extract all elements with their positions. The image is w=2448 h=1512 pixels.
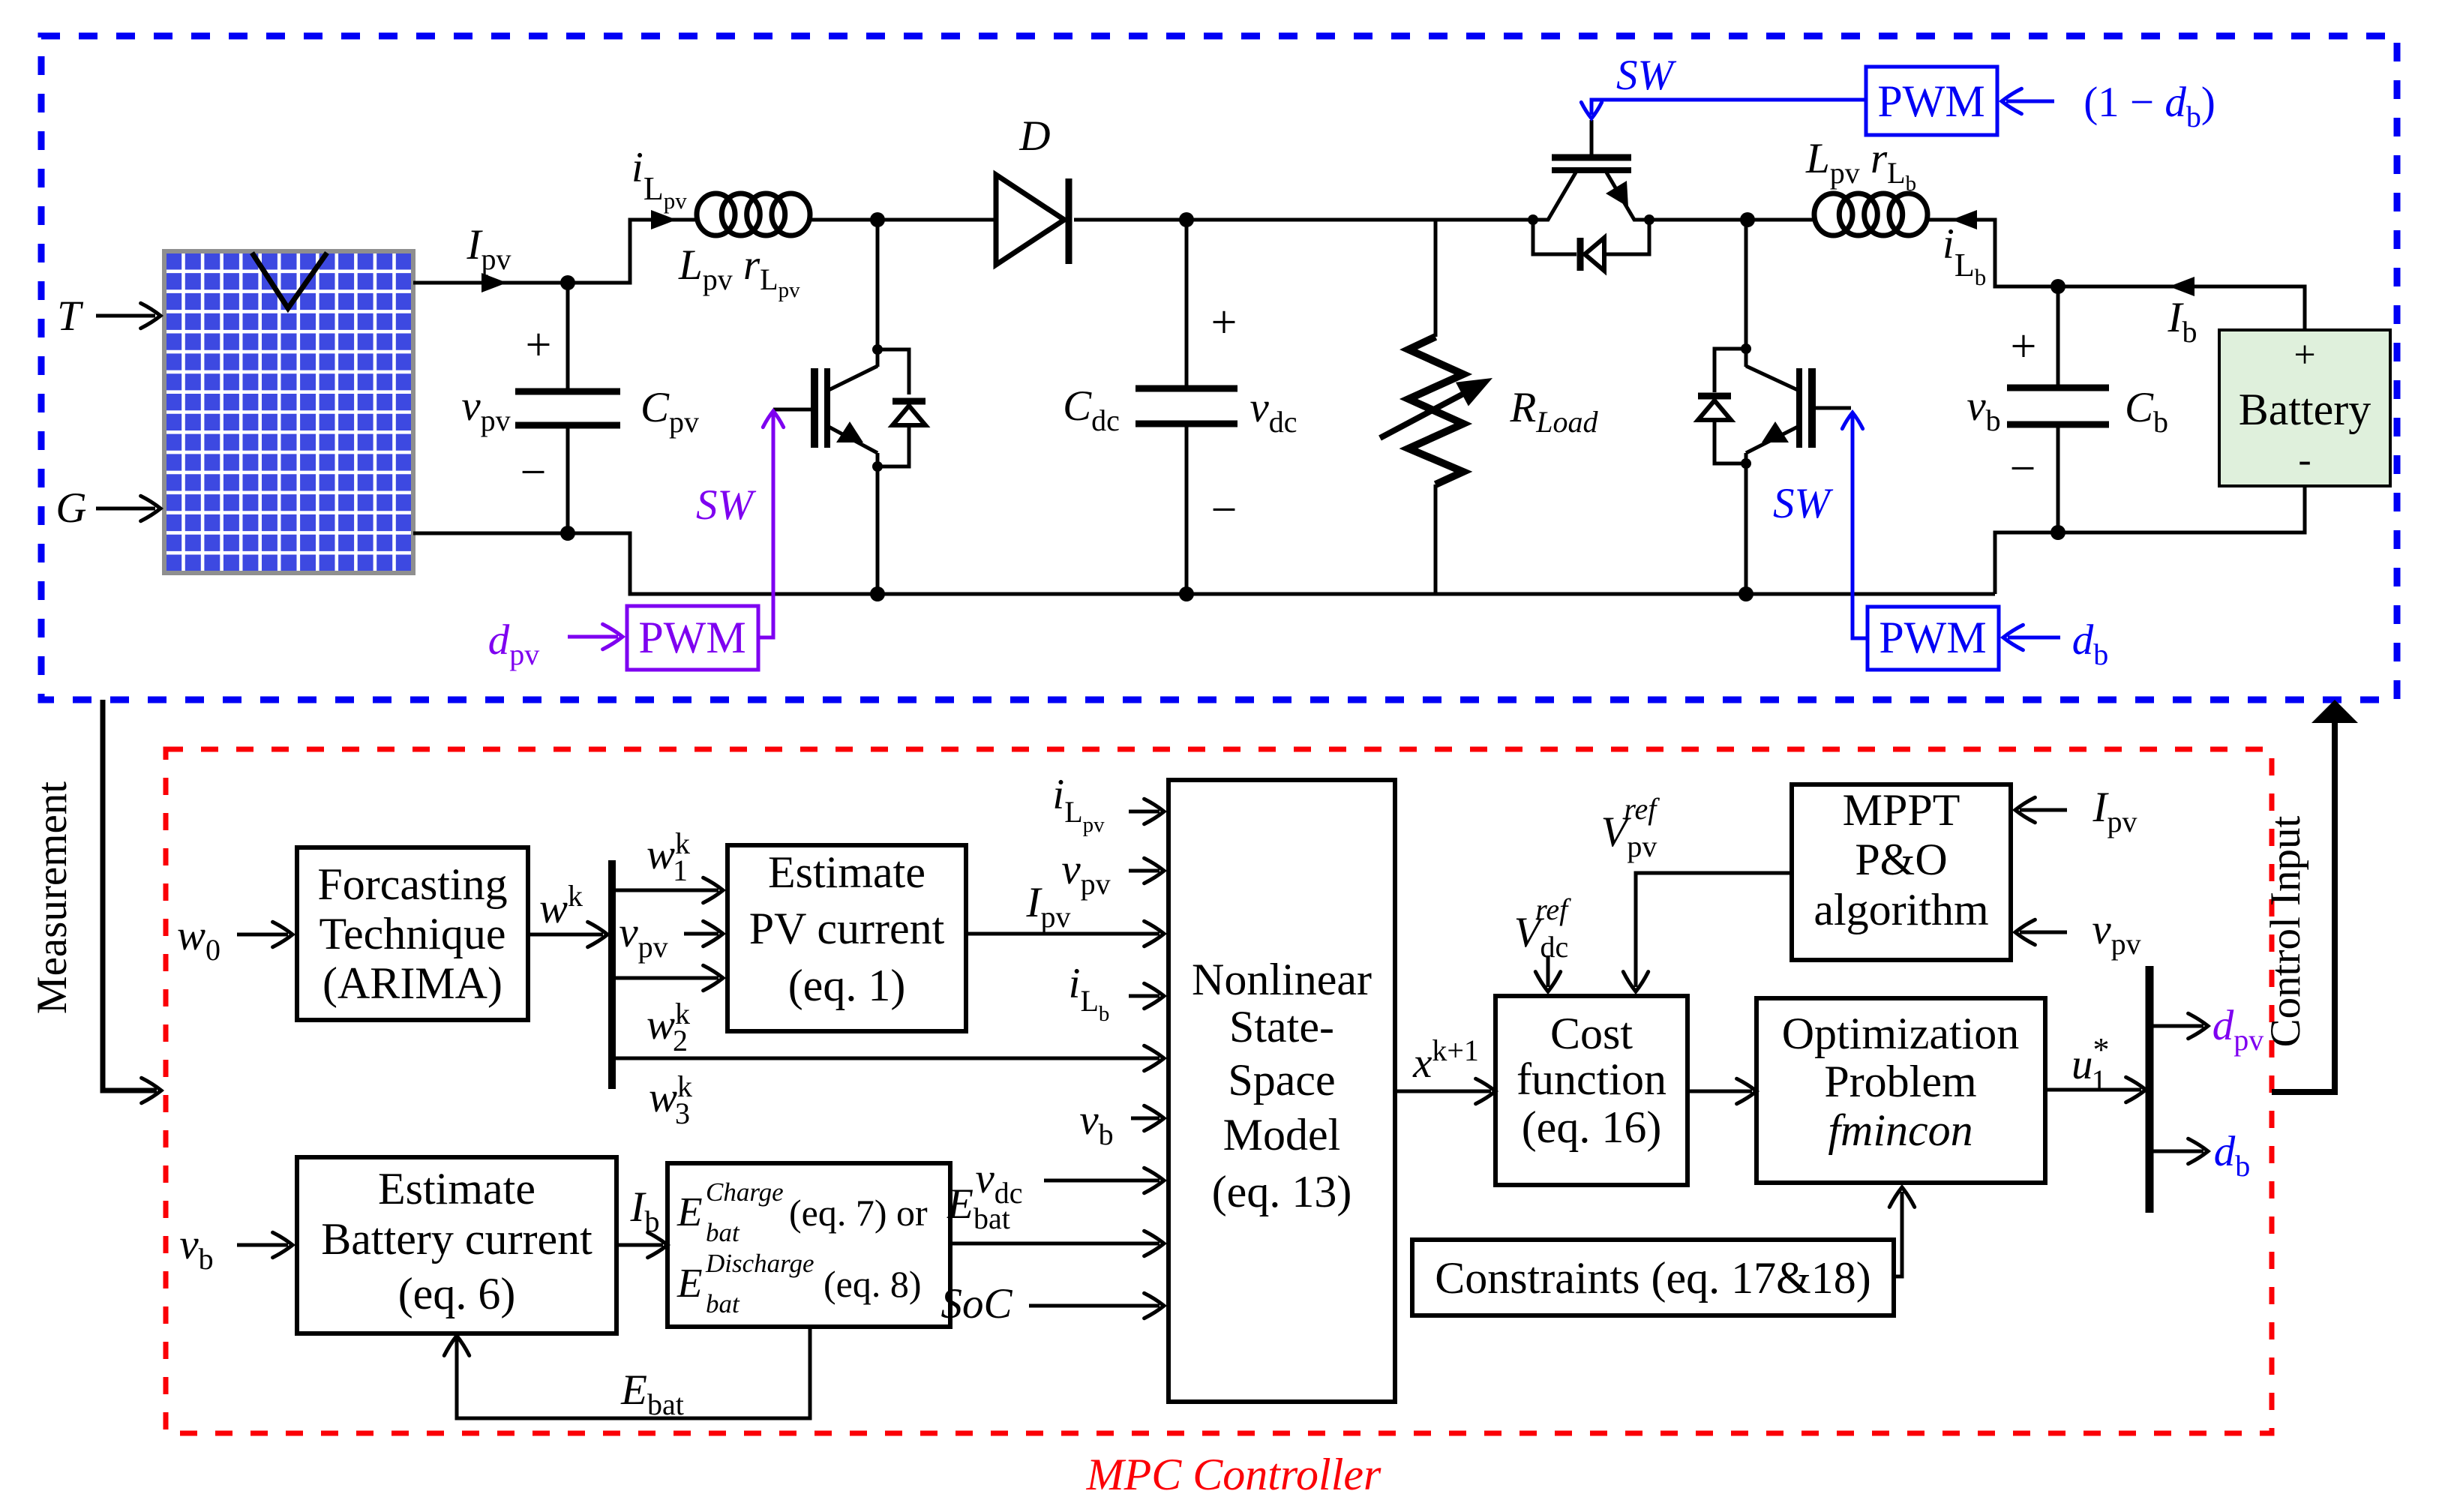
wire bottom step <box>568 533 877 594</box>
block Estimate PV current (eq. 1) <box>727 845 966 1031</box>
svg-text:PWM: PWM <box>1877 76 1984 126</box>
svg-text:Estimate: Estimate <box>378 1164 535 1213</box>
svg-text:(eq. 7) or: (eq. 7) or <box>789 1192 928 1234</box>
node B (dc bus +) <box>1179 212 1194 227</box>
power circuit boundary (blue dashed box) <box>41 36 2397 700</box>
wire vb to model <box>1131 1105 1164 1130</box>
wire w2k branch <box>615 965 723 990</box>
wire Ipv to model <box>966 921 1164 946</box>
svg-text:P&O: P&O <box>1855 835 1947 884</box>
svg-text:(eq. 13): (eq. 13) <box>1212 1167 1352 1216</box>
svg-text:SW: SW <box>1773 480 1834 527</box>
wire PV positive output <box>413 281 568 285</box>
wire battery negative <box>2058 486 2305 532</box>
block Forecasting Technique (ARIMA) <box>297 847 528 1020</box>
node bottom 2 <box>1179 586 1194 601</box>
wire Q2 to node C <box>1649 218 1747 222</box>
svg-text:vb: vb <box>179 1221 213 1276</box>
svg-text:D: D <box>1018 112 1050 160</box>
block Ebat charge/discharge (eq. 7 / eq. 8) <box>667 1163 950 1327</box>
svg-text:+: + <box>526 319 552 370</box>
svg-text:Vpvref: Vpvref <box>1601 792 1660 863</box>
wire PWM1 to Q1 gate (purple) <box>758 411 784 637</box>
svg-text:Cb: Cb <box>2125 384 2168 439</box>
svg-text:MPC Controller: MPC Controller <box>1086 1450 1381 1499</box>
wire optimization to output bus <box>2045 1077 2146 1102</box>
wire T input <box>96 303 160 328</box>
block Nonlinear State-Space Model (eq. 13) <box>1168 780 1395 1402</box>
svg-text:w0: w0 <box>177 912 220 967</box>
svg-text:iLb: iLb <box>1069 960 1110 1026</box>
wire Q1 emitter to rail <box>876 466 880 594</box>
svg-text:Ebat: Ebat <box>620 1366 684 1421</box>
svg-text:(eq. 6): (eq. 6) <box>398 1269 516 1318</box>
block MPPT P&O algorithm <box>1792 784 2011 960</box>
wire node A to diode D <box>877 218 996 222</box>
svg-text:db: db <box>2072 616 2109 671</box>
svg-text:(1 − db): (1 − db) <box>2083 79 2215 133</box>
wire w1k branch <box>615 877 723 902</box>
svg-text:dpv: dpv <box>2212 1002 2264 1057</box>
resistor RLoad <box>1380 337 1498 484</box>
wire w3k branch <box>615 1045 1164 1070</box>
wire db to PWM3 <box>2003 625 2060 649</box>
arrow iLpv direction <box>651 210 676 229</box>
block Cost function (eq. 16) <box>1495 996 1687 1185</box>
wire Vpv ref to cost <box>1623 873 1792 991</box>
svg-text:iLpv: iLpv <box>1052 771 1105 837</box>
node E (battery bus -) <box>2050 525 2065 540</box>
svg-text:vpv: vpv <box>2092 906 2140 961</box>
svg-text:Ipv: Ipv <box>466 221 511 276</box>
node C (buck-boost switch node) <box>1740 212 1755 227</box>
svg-text:Vdcref: Vdcref <box>1514 892 1571 964</box>
svg-text:PV current: PV current <box>749 904 945 953</box>
wire w0 to forecasting <box>237 922 292 946</box>
svg-text:fmincon: fmincon <box>1828 1105 1972 1155</box>
svg-text:T: T <box>57 292 84 340</box>
wire Lb to elbow <box>1927 220 2058 286</box>
wire Ib to Ebat block <box>616 1232 667 1257</box>
svg-text:Forcasting: Forcasting <box>317 859 507 909</box>
wire Q3 emitter to rail <box>1744 463 1748 594</box>
svg-text:Charge: Charge <box>706 1177 784 1207</box>
wire cost to optimization <box>1687 1078 1756 1103</box>
svg-text:Cdc: Cdc <box>1063 382 1120 437</box>
wire wk to bus <box>528 922 607 946</box>
svg-text:Lpv rLpv: Lpv rLpv <box>678 241 800 302</box>
transistor Q3 (battery bottom IGBT) <box>1741 343 1851 469</box>
svg-text:Problem: Problem <box>1824 1057 1976 1106</box>
svg-text:+: + <box>2293 334 2315 376</box>
svg-text:Cpv: Cpv <box>640 384 699 439</box>
wire model to cost <box>1395 1078 1495 1103</box>
wire Measurement <box>103 700 161 1103</box>
svg-text:wk: wk <box>539 879 583 932</box>
wire to inductor Lpv <box>672 218 697 222</box>
svg-text:+: + <box>2011 321 2037 372</box>
svg-text:Lpv rLb: Lpv rLb <box>1805 135 1916 196</box>
PV array panel <box>164 251 413 573</box>
svg-text:Constraints (eq. 17&18): Constraints (eq. 17&18) <box>1435 1253 1871 1303</box>
wire node C to Q3 <box>1744 220 1748 367</box>
wire node to boost step <box>568 220 672 283</box>
wire dpv to PWM1 <box>568 624 622 649</box>
wire G input <box>96 496 160 520</box>
svg-text:Model: Model <box>1223 1110 1341 1159</box>
wire PWM2 to Q2 gate (blue) <box>1581 100 1866 118</box>
svg-text:State-: State- <box>1229 1002 1334 1051</box>
svg-text:SW: SW <box>696 481 757 529</box>
MPC controller boundary (red dashed box) <box>166 749 2272 1433</box>
svg-text:vpv: vpv <box>1061 846 1110 901</box>
svg-text:MPPT: MPPT <box>1843 785 1960 835</box>
wire Ebat to model <box>950 1231 1164 1255</box>
pwm PWM2 (1-db) box <box>1866 67 1997 135</box>
wire (1-db) to PWM2 <box>2002 88 2054 113</box>
svg-text:(eq. 16): (eq. 16) <box>1522 1102 1662 1152</box>
svg-text:u*1: u*1 <box>2071 1031 2110 1097</box>
wire vpv branch <box>684 921 723 946</box>
svg-text:function: function <box>1516 1054 1666 1104</box>
svg-text:iLb: iLb <box>1942 220 1986 290</box>
wire bottom rail <box>877 592 1995 596</box>
svg-text:Technique: Technique <box>319 909 505 958</box>
wire constraints to optimization <box>1889 1187 1914 1276</box>
block Optimization Problem fmincon <box>1756 998 2045 1183</box>
svg-text:Nonlinear: Nonlinear <box>1192 955 1372 1004</box>
svg-text:(eq. 8): (eq. 8) <box>823 1263 922 1305</box>
transistor Q2 (battery top IGBT) <box>1528 120 1654 225</box>
svg-text:vpv: vpv <box>619 909 667 964</box>
arrow Ipv direction <box>481 273 507 292</box>
svg-text:bat: bat <box>706 1289 740 1318</box>
wire Cdc top <box>1185 220 1189 388</box>
svg-text:wk3: wk3 <box>649 1069 692 1130</box>
wire Control Input <box>2272 700 2358 1092</box>
svg-text:db: db <box>2214 1128 2251 1183</box>
node PV negative <box>560 526 575 541</box>
wire diode to node B <box>1074 218 1186 222</box>
output bus bar <box>2146 966 2154 1213</box>
svg-text:Battery: Battery <box>2239 385 2371 434</box>
svg-text:(eq. 1): (eq. 1) <box>788 961 906 1010</box>
svg-text:SW: SW <box>1616 52 1677 99</box>
svg-text:dpv: dpv <box>488 616 540 671</box>
node PV positive <box>560 275 575 290</box>
svg-text:+: + <box>1211 297 1237 348</box>
wire node C to Lb <box>1747 218 1814 222</box>
wire RLoad top <box>1434 220 1438 337</box>
svg-text:G: G <box>55 484 86 532</box>
svg-text:bat: bat <box>706 1218 740 1247</box>
svg-text:algorithm: algorithm <box>1813 885 1988 934</box>
wire dpv output <box>2153 1013 2208 1038</box>
block Constraints (eq. 17&18) <box>1412 1240 1894 1315</box>
wire Ipv to MPPT <box>2015 797 2067 822</box>
wire PWM3 to Q3 gate (blue) <box>1842 412 1867 638</box>
svg-text:xk+1: xk+1 <box>1412 1033 1479 1087</box>
svg-text:Measurement: Measurement <box>28 781 76 1014</box>
svg-text:Cost: Cost <box>1550 1009 1633 1058</box>
wire dc bus top <box>1186 218 1533 222</box>
diode D <box>996 175 1069 265</box>
svg-text:−: − <box>1211 484 1237 535</box>
wire Cdc bottom <box>1185 424 1189 594</box>
svg-text:Discharge: Discharge <box>705 1249 814 1278</box>
block Estimate Battery current (eq. 6) <box>297 1157 616 1333</box>
svg-text:Estimate: Estimate <box>768 847 925 897</box>
capacitor Cpv <box>515 391 620 425</box>
svg-text:E: E <box>676 1189 703 1234</box>
wire db output <box>2153 1138 2208 1163</box>
wire SoC to model <box>1029 1293 1164 1318</box>
svg-text:(ARIMA): (ARIMA) <box>322 958 502 1008</box>
svg-text:vdc: vdc <box>1249 384 1297 439</box>
capacitor Cdc <box>1135 388 1237 424</box>
node D (battery bus +) <box>2050 279 2065 294</box>
svg-text:−: − <box>2010 443 2036 494</box>
svg-text:Ib: Ib <box>630 1183 660 1238</box>
svg-text:RLoad: RLoad <box>1509 384 1598 439</box>
wire battery rail return <box>1995 532 2058 594</box>
svg-text:E: E <box>676 1260 703 1306</box>
node bottom 1 <box>870 586 885 601</box>
wire vpv to model <box>1129 858 1164 883</box>
inductor Lpv <box>697 193 810 235</box>
svg-text:Optimization: Optimization <box>1782 1009 2020 1058</box>
wire vb to battery-estimator <box>237 1232 292 1257</box>
svg-text:-: - <box>2298 439 2311 481</box>
svg-text:Control Input: Control Input <box>2262 815 2309 1047</box>
pwm PWM1 (dpv) box <box>627 606 758 670</box>
arrow iLb direction <box>1951 210 1977 229</box>
svg-text:Battery current: Battery current <box>321 1214 592 1264</box>
svg-text:−: − <box>520 447 547 498</box>
svg-text:vb: vb <box>1079 1096 1113 1151</box>
wire Ebat feedback <box>444 1327 810 1418</box>
svg-text:PWM: PWM <box>1879 613 1986 662</box>
battery <box>2219 330 2390 486</box>
wire iLpv to model <box>1129 799 1164 823</box>
wire Vdc ref to cost <box>1535 955 1560 991</box>
wire Cpv top <box>566 283 570 391</box>
svg-text:iLpv: iLpv <box>631 144 687 214</box>
svg-text:PWM: PWM <box>638 613 745 662</box>
wire inductor to node A <box>810 218 877 222</box>
wire Cb bottom <box>2056 424 2060 532</box>
wire RLoad bottom <box>1434 484 1438 594</box>
node A (boost switch node) <box>870 212 885 227</box>
transistor Q1 (PV boost IGBT) <box>773 220 883 472</box>
arrow Ib direction <box>2169 277 2194 296</box>
diode D3 (Q3 antiparallel) <box>1698 349 1746 463</box>
svg-text:wk1: wk1 <box>646 826 690 887</box>
wire iLb to model <box>1129 983 1164 1008</box>
wire vpv to MPPT <box>2015 919 2067 944</box>
svg-text:vpv: vpv <box>461 382 510 437</box>
wire vdc to model <box>1044 1168 1164 1192</box>
wire Cpv bottom <box>566 425 570 533</box>
svg-text:Ipv: Ipv <box>2092 784 2137 838</box>
wire battery positive <box>2058 286 2305 330</box>
wire Cb top <box>2056 286 2060 388</box>
svg-text:Ib: Ib <box>2167 294 2197 349</box>
svg-text:vb: vb <box>1966 382 2000 437</box>
svg-text:wk2: wk2 <box>646 997 690 1057</box>
inductor Lb <box>1814 193 1927 235</box>
wire PV negative output <box>413 532 568 535</box>
svg-text:Space: Space <box>1228 1055 1335 1105</box>
capacitor Cb <box>2007 388 2109 424</box>
diode D2 (Q2 antiparallel) <box>1533 220 1649 271</box>
node bottom 3 <box>1738 586 1753 601</box>
bus splitter bar <box>608 860 616 1089</box>
diode D1 (Q1 antiparallel) <box>877 349 925 466</box>
pwm PWM3 (db) box <box>1867 607 1999 670</box>
